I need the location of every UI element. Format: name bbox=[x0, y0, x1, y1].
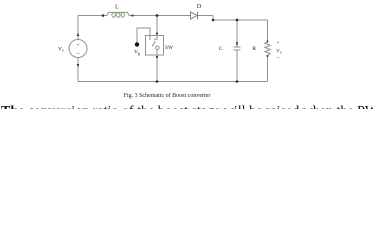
svg-text:D: D bbox=[197, 4, 202, 10]
diode D bbox=[189, 12, 198, 19]
wire resistor branch bottom bbox=[267, 56, 269, 82]
current arrow on Vs top branch bbox=[77, 33, 80, 37]
switch bottom terminal dot bbox=[156, 56, 158, 58]
wire switch drain vertical bbox=[156, 16, 158, 36]
svg-text:−: − bbox=[276, 55, 279, 61]
capacitor plus tick bbox=[236, 42, 238, 45]
node dot switch bottom junction bbox=[156, 80, 159, 83]
wire top rail mid bbox=[129, 15, 189, 17]
inductor L bbox=[107, 12, 129, 17]
switch top terminal dot bbox=[156, 32, 158, 34]
wire capacitor branch top bbox=[236, 20, 238, 47]
svg-text:Fig. 3 Schematic of Boost conv: Fig. 3 Schematic of Boost converter bbox=[124, 92, 211, 99]
node dot capacitor bottom junction bbox=[236, 80, 239, 83]
capacitor C bbox=[234, 47, 241, 50]
wire capacitor branch bottom bbox=[236, 50, 238, 82]
current arrow on Vs bottom branch bbox=[77, 64, 80, 68]
resistor top terminal tick bbox=[267, 41, 269, 43]
svg-text:−: − bbox=[76, 51, 80, 58]
svg-text:Vo: Vo bbox=[276, 50, 282, 55]
resistor bottom terminal tick bbox=[267, 55, 269, 57]
switch symbol inside bbox=[150, 36, 159, 56]
node dot step corner bbox=[212, 19, 215, 22]
node dot capacitor top junction bbox=[236, 19, 239, 22]
svg-text:+: + bbox=[76, 43, 79, 49]
node dot inductor input bbox=[102, 14, 105, 17]
svg-text:SW: SW bbox=[165, 45, 173, 51]
gate node Vg dot bbox=[135, 42, 139, 46]
wire top rail left bbox=[78, 15, 107, 17]
wire switch to bottom rail bbox=[156, 55, 158, 82]
wire vs top vertical bbox=[77, 16, 79, 40]
wire step down after diode bbox=[212, 16, 214, 21]
svg-text:C: C bbox=[219, 46, 223, 52]
svg-text:Vs: Vs bbox=[58, 47, 64, 53]
source Vs bbox=[69, 40, 87, 58]
svg-text:Vg: Vg bbox=[134, 50, 141, 56]
body paragraph (clipped at page bottom) bbox=[1, 105, 373, 109]
node dot switch top junction bbox=[156, 14, 159, 17]
svg-text:+: + bbox=[277, 42, 280, 47]
wire vs bottom vertical bbox=[77, 58, 79, 82]
wire diode to step bbox=[198, 15, 214, 17]
wire bottom rail bbox=[78, 81, 268, 83]
node dot inductor output bbox=[131, 14, 133, 16]
wire resistor branch top bbox=[267, 20, 269, 42]
switch SW box bbox=[146, 36, 164, 56]
wire Vg gate path bbox=[137, 28, 150, 43]
resistor R bbox=[265, 42, 270, 55]
svg-text:R: R bbox=[252, 46, 256, 52]
svg-text:L: L bbox=[115, 5, 119, 11]
wire upper-right rail bbox=[213, 19, 268, 21]
